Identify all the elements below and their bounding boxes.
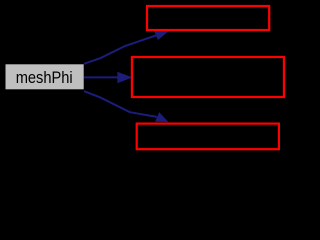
svg-text:meshPhi: meshPhi: [16, 68, 73, 87]
